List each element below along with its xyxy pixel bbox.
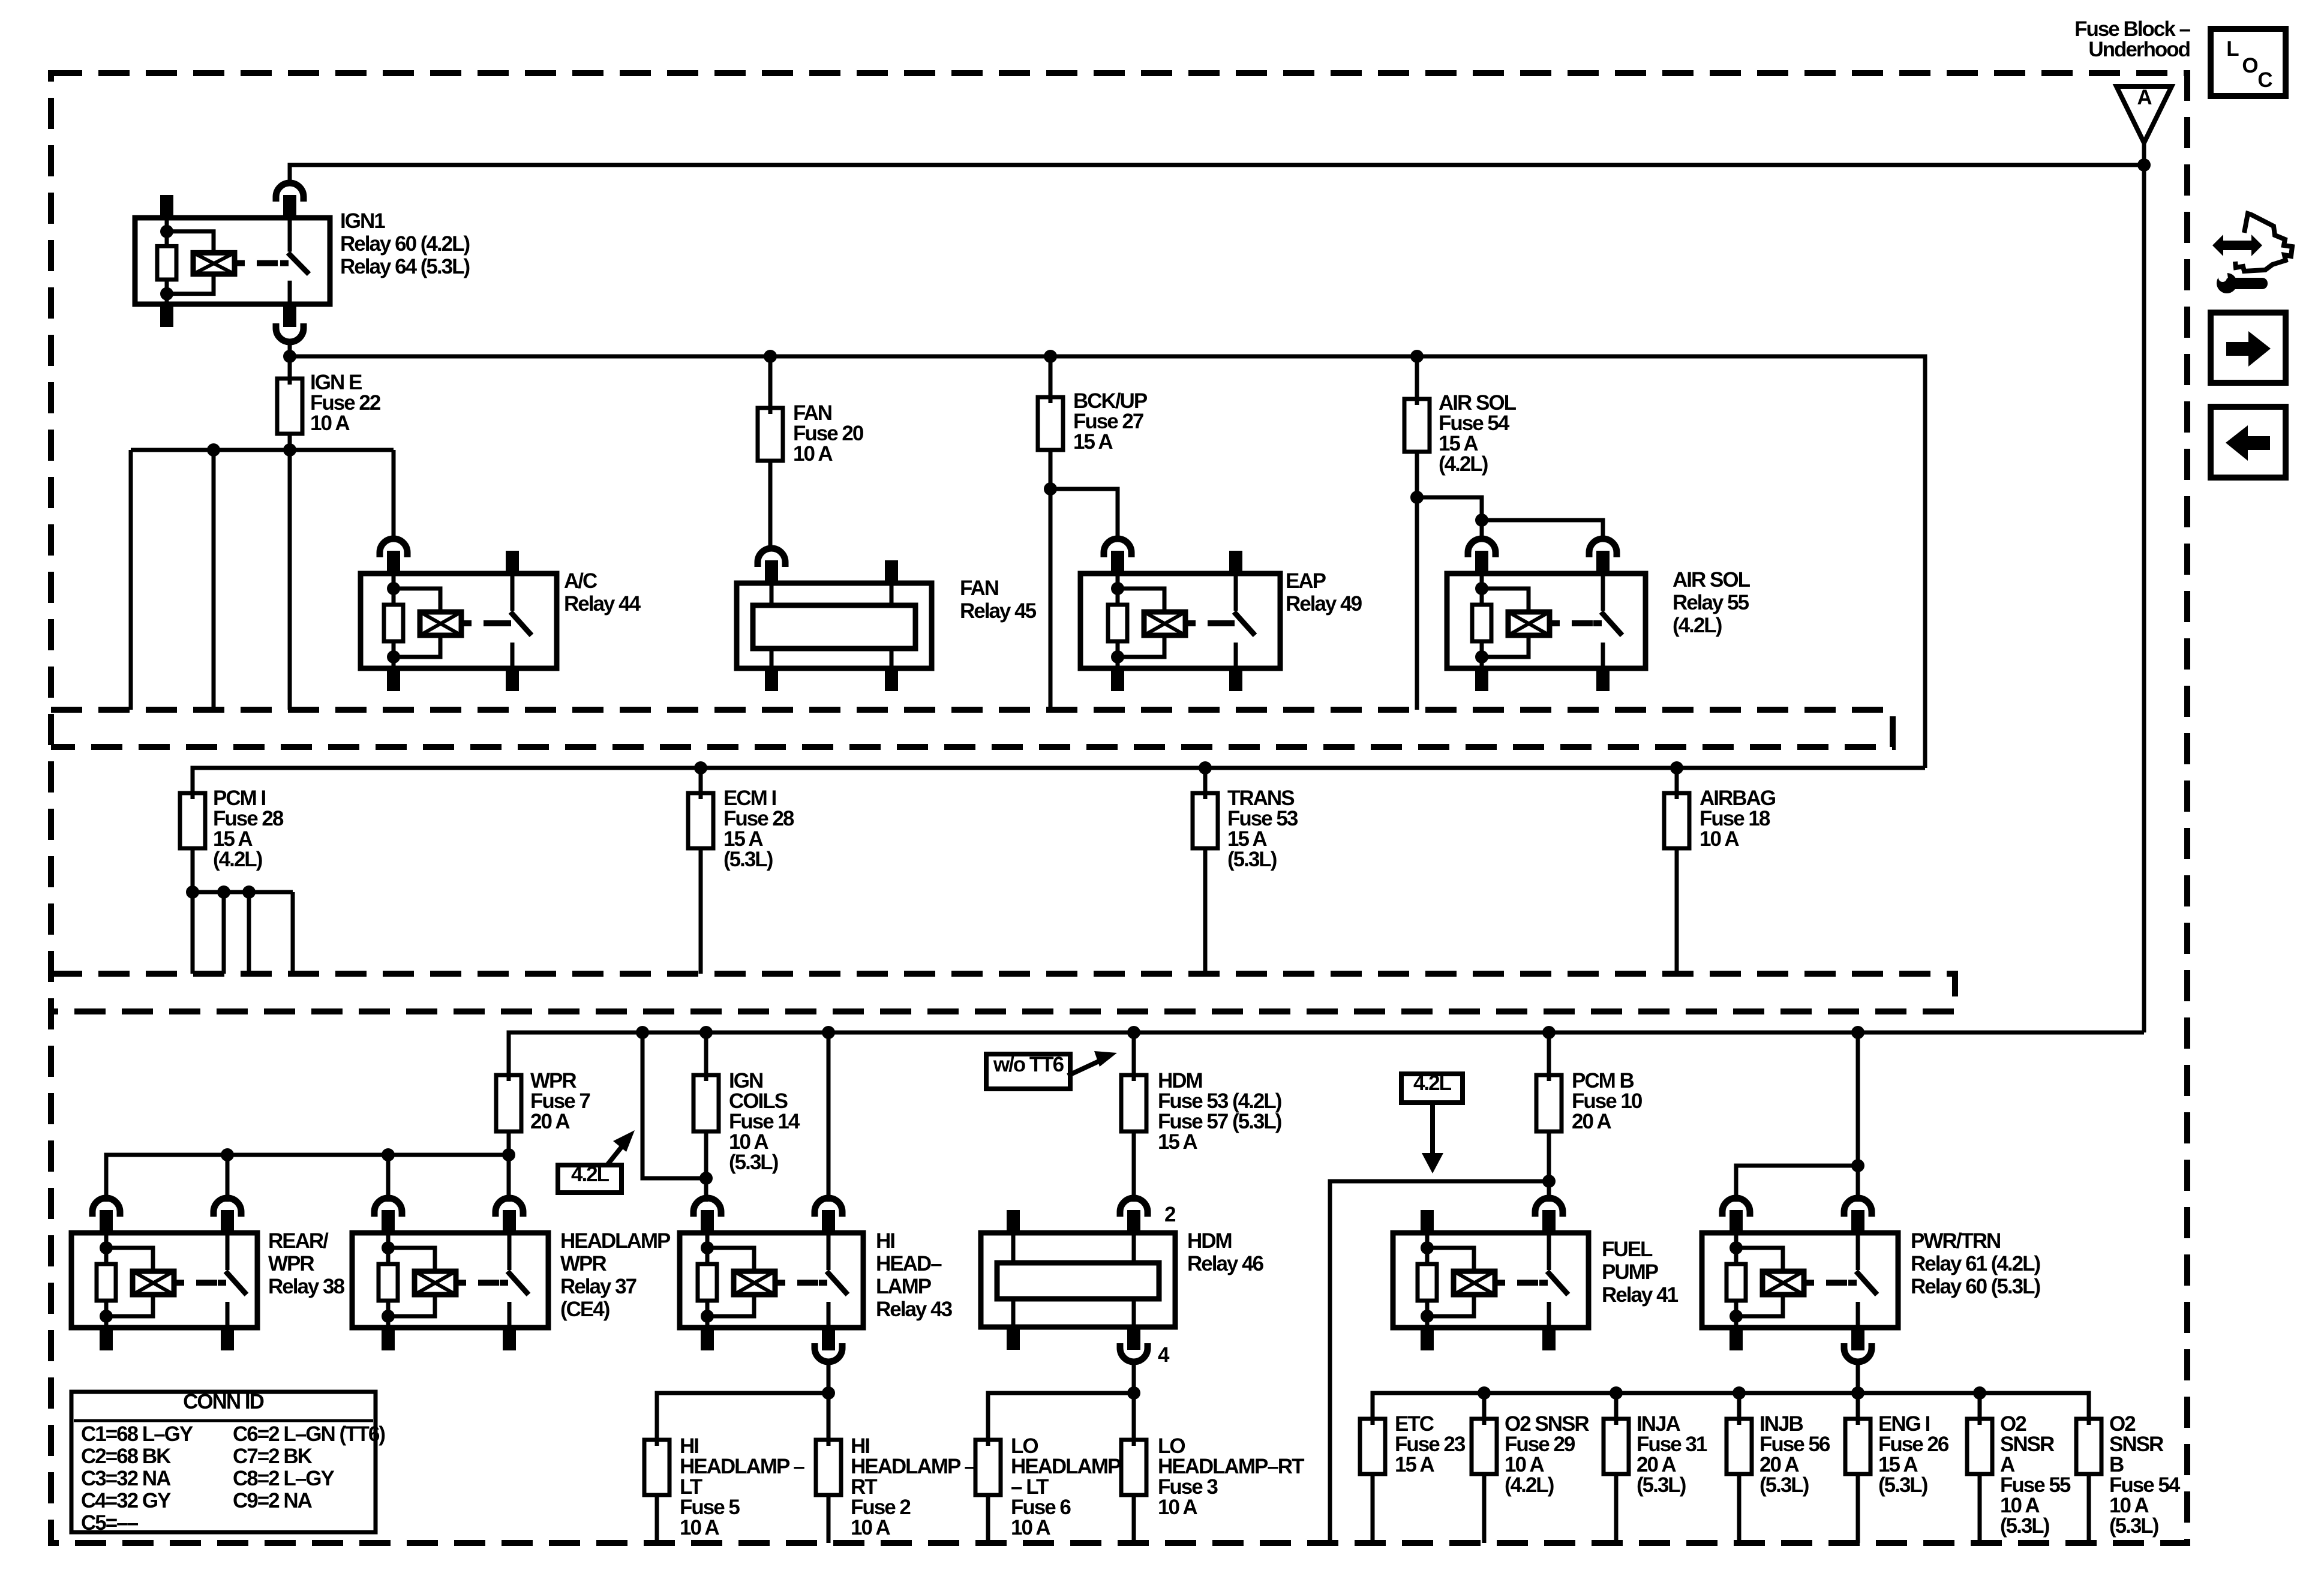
relay A/C Relay 44: [361, 574, 557, 668]
arrow-right icon box: [2211, 313, 2286, 383]
wire 4.2L feed down-left of FUEL PUMP: [1330, 1181, 1549, 1543]
wire AIRBAG down: [1675, 848, 1679, 974]
node AIRBAG: [1670, 761, 1683, 775]
wire to BCK/UP fuse: [1049, 356, 1053, 397]
wire relay38 switch drop: [226, 1155, 230, 1202]
bus wire y594 feeding FAN/BCKUP/AIRSOL fuses: [290, 356, 1925, 768]
fuse PCM I Fuse 28: [191, 793, 195, 848]
wire drop x218: [129, 450, 133, 710]
wire 4.2L branch to IGN COILS line: [642, 1032, 706, 1178]
wire to AIR SOL fuse: [1415, 356, 1419, 399]
node IGN COILS bottom: [699, 1172, 713, 1185]
arrow 4.2L (fuel pump): [1430, 1103, 1435, 1158]
fuse FAN Fuse 20: [768, 408, 773, 461]
fuse TRANS Fuse 53: [1203, 768, 1208, 793]
dashed separator between top and middle sections: [51, 710, 1893, 747]
fuse LO HEADLAMP-RT Fuse 3: [1132, 1440, 1136, 1495]
car/service icon: [2212, 235, 2262, 256]
fuse O2 SNSR B Fuse 54: [2087, 1419, 2091, 1474]
wire relay43 output to HI headlamp fuses: [827, 1362, 831, 1440]
wire WPR to relay feed line: [507, 1131, 511, 1202]
arrow 4.2L (ign coils): [607, 1141, 626, 1165]
comb connector under PCM I: [193, 890, 293, 894]
wire relay37 coil drop: [386, 1155, 391, 1202]
fuse LO HEADLAMP-LT Fuse 6: [986, 1440, 990, 1495]
fuse HI HEADLAMP-RT Fuse 2: [827, 1440, 831, 1495]
relay FAN Relay 45: [737, 583, 932, 668]
wire BCK/UP fuse down through border: [1049, 450, 1053, 710]
fuse HDM Fuse 53/57: [1127, 1026, 1140, 1039]
fuse ETC Fuse 23: [1371, 1419, 1375, 1474]
wire to A/C relay coil: [392, 450, 396, 539]
fuse O2 SNSR A Fuse 55: [1978, 1419, 1982, 1474]
fuse AIRBAG Fuse 18: [1675, 768, 1679, 793]
fuse INJB Fuse 56: [1737, 1419, 1742, 1474]
fuse O2 SNSR Fuse 29: [1482, 1419, 1487, 1474]
wire PWR/TRN output to lower fuse bus: [1856, 1362, 1860, 1419]
node IGN E top: [283, 350, 296, 363]
node WPR feed: [502, 1148, 515, 1161]
wire AIR SOL branch to switch pin: [1482, 520, 1603, 539]
wire PCM I to comb: [191, 848, 195, 892]
wire BCK/UP branch to EAP relay coil: [1050, 489, 1118, 539]
callout box 4.2L (ign coils): [558, 1165, 621, 1193]
node PCM B / 4.2L feed: [1542, 1175, 1556, 1188]
junction node A: [2137, 158, 2151, 172]
fuse ECM I Fuse 28: [699, 768, 703, 793]
dashed separator between middle and bottom sections: [51, 974, 1955, 1011]
wire to FAN fuse: [768, 356, 773, 408]
A-line wire (vertical feed from node A): [2142, 143, 2146, 1032]
wire PWR/TRN coil branch: [1736, 1166, 1858, 1202]
wire AIR SOL fuse down through border: [1415, 452, 1419, 710]
bus wire bottom section: [509, 1032, 2144, 1075]
fuse BCK/UP Fuse 27: [1049, 397, 1053, 450]
relay FUEL PUMP Relay 41: [1393, 1233, 1589, 1328]
relay REAR/WPR Relay 38: [71, 1233, 257, 1328]
LOC icon box: [2211, 29, 2286, 96]
wire IGN1 output to fuse 22: [288, 342, 292, 379]
relay HEADLAMP WPR Relay 37: [352, 1233, 548, 1328]
bus wire lower fuses: [1373, 1393, 2089, 1419]
relay PWR/TRN Relay 61/60: [1702, 1233, 1898, 1328]
node ECM I: [694, 761, 707, 775]
wire PWR/TRN feed: [1851, 1026, 1864, 1039]
bus wire y750 to A/C relay: [131, 448, 394, 452]
callout box w/o TT6: [986, 1054, 1070, 1089]
wire AIR SOL branch: [1417, 497, 1482, 539]
node BCK/UP branch: [1044, 482, 1057, 496]
wire HI HEADLAMP relay switch feed: [822, 1026, 835, 1039]
fuse AIR SOL Fuse 54: [1415, 399, 1419, 452]
arrow-left icon box: [2211, 407, 2286, 478]
fuse IGN E Fuse 22: [288, 379, 292, 434]
bus wire middle section: [193, 768, 1925, 793]
wire FAN fuse to FAN relay: [768, 461, 773, 548]
fuse PCM B Fuse 10: [1542, 1026, 1556, 1039]
node 4.2L branch: [636, 1026, 649, 1039]
arrow w/o TT6: [1068, 1059, 1103, 1076]
fuse HI HEADLAMP-LT Fuse 5: [655, 1440, 659, 1495]
relay EAP Relay 49: [1080, 574, 1280, 668]
bus wire from IGN1 relay to node A: [290, 165, 2144, 183]
node TRANS: [1199, 761, 1212, 775]
wire HDM output to LO headlamp fuses: [1132, 1362, 1136, 1440]
fuse ENG I Fuse 26: [1856, 1419, 1860, 1474]
relay HI HEADLAMP Relay 43: [680, 1233, 863, 1328]
fuse INJA Fuse 31: [1614, 1419, 1619, 1474]
wire drop x356: [212, 450, 216, 710]
node IGN E bottom: [288, 434, 292, 450]
relay HDM Relay 46: [981, 1233, 1175, 1327]
node AIR SOL branch: [1410, 491, 1424, 504]
wire TRANS down: [1203, 848, 1208, 974]
relay IGN1 (Relay 60/64): [135, 218, 330, 304]
fuse WPR Fuse 7: [507, 1075, 511, 1131]
relay AIR SOL Relay 55: [1447, 574, 1646, 668]
wire drop x483: [288, 450, 292, 710]
node A triangle: [2116, 86, 2172, 143]
feed wire for relays 38/37: [106, 1155, 509, 1202]
CONN ID table: [71, 1392, 376, 1532]
fuse IGN COILS Fuse 14: [699, 1026, 713, 1039]
wire ECM I down: [699, 848, 703, 974]
callout box 4.2L (fuel pump): [1401, 1074, 1463, 1103]
